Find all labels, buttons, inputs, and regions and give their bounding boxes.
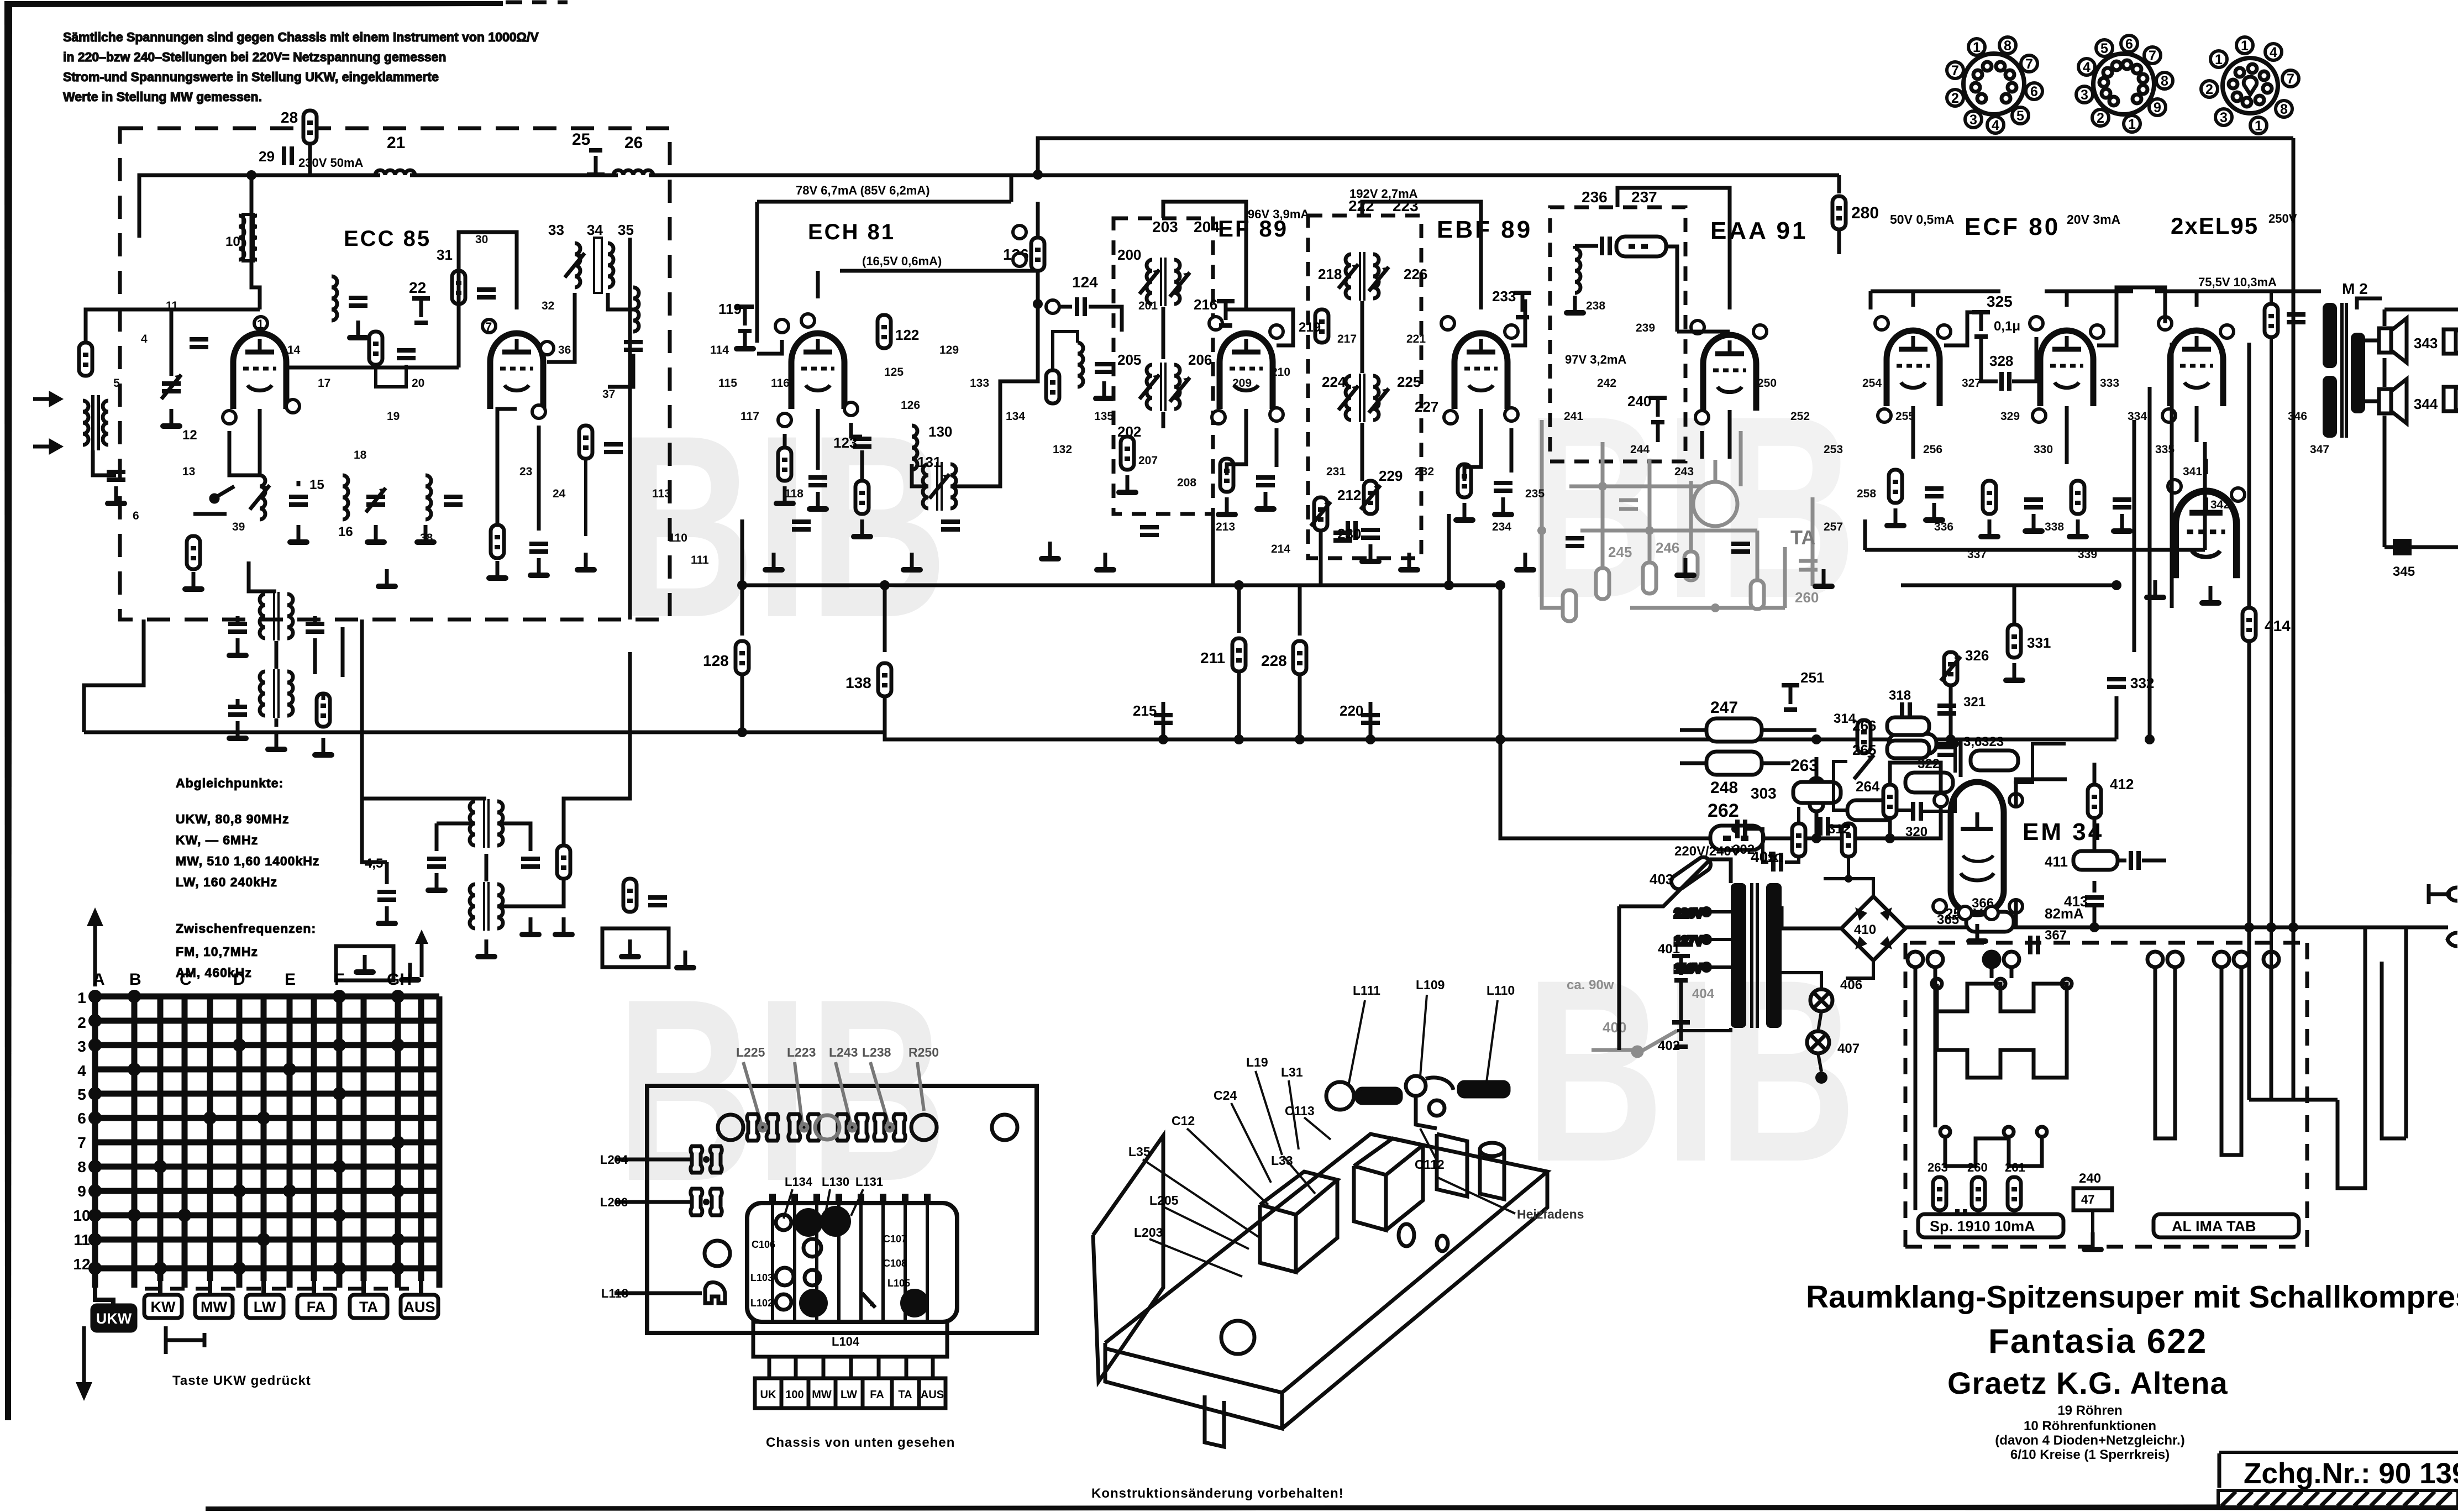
- svg-text:7: 7: [2025, 56, 2033, 72]
- svg-text:235: 235: [1525, 487, 1545, 500]
- svg-text:253: 253: [1824, 443, 1843, 456]
- switch meander lower: [1940, 1127, 2047, 1166]
- svg-text:236: 236: [1582, 188, 1608, 206]
- svg-text:312: 312: [1828, 822, 1850, 837]
- svg-text:5: 5: [113, 377, 120, 390]
- svg-text:TA: TA: [898, 1389, 912, 1401]
- svg-text:131: 131: [917, 454, 941, 470]
- svg-text:Raumklang-Spitzensuper mit Sch: Raumklang-Spitzensuper mit Schallkompres…: [1806, 1279, 2458, 1315]
- svg-text:L111: L111: [1353, 983, 1380, 998]
- svg-text:7: 7: [2287, 71, 2294, 87]
- svg-text:AUS: AUS: [921, 1389, 944, 1401]
- svg-text:L130: L130: [822, 1175, 849, 1189]
- svg-text:330: 330: [2034, 443, 2053, 456]
- svg-text:Taste UKW gedrückt: Taste UKW gedrückt: [172, 1373, 311, 1388]
- svg-text:263: 263: [1927, 1161, 1948, 1174]
- svg-text:100: 100: [785, 1389, 803, 1401]
- tube EBF89: [1441, 317, 1518, 424]
- svg-text:7: 7: [2149, 48, 2156, 64]
- wires ECF/EL: [1913, 287, 2206, 474]
- wire bus C (AVC line): [742, 553, 1500, 585]
- svg-text:LW, 160 240kHz: LW, 160 240kHz: [176, 875, 277, 889]
- svg-text:22: 22: [409, 279, 426, 296]
- svg-text:215: 215: [1133, 702, 1157, 719]
- svg-text:6: 6: [77, 1110, 86, 1127]
- svg-text:207: 207: [1138, 454, 1158, 467]
- svg-text:220: 220: [1340, 702, 1363, 719]
- svg-text:AUS: AUS: [403, 1299, 435, 1315]
- svg-text:L131: L131: [855, 1175, 883, 1189]
- left column symbols: [691, 1146, 730, 1303]
- svg-text:334: 334: [2128, 410, 2147, 423]
- svg-text:325: 325: [1987, 293, 2013, 310]
- svg-text:346: 346: [2288, 410, 2307, 423]
- svg-text:17: 17: [318, 377, 330, 390]
- svg-text:260: 260: [1967, 1161, 1988, 1174]
- svg-text:24: 24: [553, 487, 566, 500]
- svg-text:20: 20: [412, 377, 424, 390]
- svg-text:M 2: M 2: [2342, 280, 2368, 297]
- wire from bus C left end up: [740, 519, 744, 553]
- svg-text:26: 26: [624, 134, 643, 152]
- svg-text:8: 8: [77, 1158, 86, 1175]
- svg-text:Sp. 1910 10mA: Sp. 1910 10mA: [1930, 1218, 2035, 1235]
- svg-text:(16,5V 0,6mA): (16,5V 0,6mA): [862, 254, 942, 268]
- svg-text:9: 9: [77, 1183, 86, 1200]
- svg-text:L205: L205: [1149, 1193, 1179, 1208]
- svg-text:ECH 81: ECH 81: [808, 220, 895, 244]
- svg-text:5: 5: [2100, 41, 2108, 56]
- svg-text:R250: R250: [908, 1045, 939, 1059]
- svg-text:16: 16: [338, 524, 353, 539]
- IF transformer upper: [1139, 258, 1190, 306]
- svg-text:232: 232: [1415, 465, 1434, 478]
- svg-text:244: 244: [1630, 443, 1650, 456]
- svg-text:C12: C12: [1172, 1114, 1195, 1128]
- svg-text:339: 339: [2078, 548, 2097, 561]
- antenna input arrows left: [33, 394, 60, 452]
- svg-text:231: 231: [1326, 465, 1346, 478]
- svg-text:L223: L223: [787, 1045, 816, 1059]
- cap 119 left of tube: [718, 301, 756, 351]
- svg-text:110V: 110V: [1674, 962, 1702, 975]
- svg-text:345: 345: [2393, 564, 2415, 579]
- svg-text:L109: L109: [1416, 978, 1445, 992]
- tuner small labels inside: [750, 1233, 910, 1309]
- volume pot 326: [1941, 647, 1989, 739]
- svg-text:303: 303: [1751, 785, 1777, 802]
- svg-text:126: 126: [901, 399, 920, 412]
- svg-text:FA: FA: [870, 1389, 884, 1401]
- svg-text:401: 401: [1658, 942, 1680, 957]
- svg-text:Werte in Stellung MW gemessen.: Werte in Stellung MW gemessen.: [63, 90, 262, 104]
- svg-text:412: 412: [2110, 776, 2134, 792]
- svg-text:2: 2: [2097, 111, 2104, 126]
- triode ECC85 b: [482, 319, 554, 418]
- resistor 228 riser: [1261, 585, 1306, 739]
- svg-text:Sämtliche Spannungen sind gege: Sämtliche Spannungen sind gegen Chassis …: [63, 30, 539, 44]
- svg-text:327: 327: [1962, 377, 1981, 390]
- svg-text:262: 262: [1708, 800, 1739, 821]
- input tuned circuit components: [79, 343, 127, 506]
- svg-text:122: 122: [895, 327, 919, 343]
- wire bus D (ground return): [84, 732, 2116, 739]
- small box lower: [336, 946, 421, 983]
- svg-text:47: 47: [2081, 1193, 2094, 1206]
- speaker right edge 2: [2444, 377, 2458, 421]
- wire 75,5V top: [2155, 290, 2321, 293]
- wire runs mid-right: [1865, 343, 2205, 777]
- bottom terminal boxes: [755, 1378, 946, 1408]
- svg-text:EAA 91: EAA 91: [1710, 217, 1808, 244]
- svg-text:35: 35: [618, 222, 634, 238]
- svg-text:6/10 Kreise (1 Sperrkreis): 6/10 Kreise (1 Sperrkreis): [2010, 1447, 2170, 1462]
- column letters: [93, 970, 412, 989]
- svg-text:338: 338: [2045, 521, 2064, 533]
- svg-text:28: 28: [281, 109, 298, 126]
- svg-text:31: 31: [437, 246, 453, 263]
- cap 216: [1194, 296, 1235, 326]
- AM IF transformer cluster below box: [227, 592, 334, 758]
- svg-text:C113: C113: [1285, 1104, 1315, 1118]
- dial knob circles: [1221, 1321, 1254, 1354]
- resistor 280 at right end of bus B: [1832, 175, 1879, 254]
- svg-text:258: 258: [1857, 487, 1876, 500]
- tube ECH81: [775, 314, 858, 427]
- svg-text:328: 328: [1989, 353, 2013, 369]
- svg-text:250: 250: [1757, 377, 1777, 390]
- svg-text:205: 205: [1117, 351, 1141, 368]
- cap 215 on bus D: [1133, 702, 1173, 739]
- svg-text:219: 219: [1299, 320, 1321, 335]
- coil 10 antenna transformer: [225, 214, 257, 261]
- stub teeth: [769, 1357, 933, 1378]
- wire bus B (anode rail) with chokes: [251, 174, 1839, 177]
- choke 26: [613, 134, 653, 175]
- svg-text:MW, 510 1,60 1400kHz: MW, 510 1,60 1400kHz: [176, 854, 319, 868]
- svg-text:4: 4: [2270, 45, 2277, 60]
- wire top ECF: [1911, 291, 1915, 307]
- svg-text:242: 242: [1597, 377, 1616, 390]
- tuner labels above: [785, 1175, 883, 1189]
- svg-text:331: 331: [2027, 634, 2051, 651]
- choke 21: [298, 134, 415, 175]
- band buttons: [92, 1295, 438, 1331]
- svg-text:C24: C24: [1214, 1088, 1237, 1102]
- svg-text:210: 210: [1271, 366, 1290, 379]
- svg-text:C108: C108: [883, 1258, 907, 1269]
- svg-text:23: 23: [519, 465, 532, 478]
- svg-text:1: 1: [77, 989, 86, 1006]
- headphone jacks right edge: [2429, 884, 2457, 946]
- svg-text:ECF 80: ECF 80: [1965, 213, 2060, 240]
- svg-text:MW: MW: [201, 1299, 227, 1315]
- small front bracket: [1205, 1395, 1224, 1447]
- svg-text:342: 342: [2210, 498, 2230, 511]
- chassis plate outline: [647, 1086, 1037, 1333]
- EF/ECH mid cluster extra: [1046, 332, 1115, 403]
- FM switch contact row: [193, 486, 234, 514]
- svg-text:226: 226: [1404, 266, 1427, 282]
- svg-text:367: 367: [2045, 928, 2067, 943]
- lower small cluster 365/366: [1937, 896, 2067, 954]
- svg-text:1: 1: [1973, 40, 1981, 55]
- tube socket diagram 2 (noval): [2076, 35, 2173, 132]
- lower network 303-307: [1731, 782, 1879, 883]
- svg-text:L225: L225: [736, 1045, 765, 1059]
- label box right: AL IMA TAB: [2154, 1214, 2299, 1237]
- svg-text:265: 265: [1852, 742, 1876, 758]
- wires EF89: [1163, 202, 1293, 585]
- svg-text:410: 410: [1854, 922, 1876, 937]
- svg-text:MW: MW: [812, 1389, 832, 1401]
- svg-text:96V 3,9mA: 96V 3,9mA: [1248, 207, 1309, 221]
- wires ECH section: [757, 304, 1038, 486]
- hatched bar bottom right: [2218, 1490, 2458, 1507]
- 240 / 47 small box: [2073, 1171, 2112, 1252]
- Abgleichpunkte text block: [176, 776, 319, 980]
- svg-text:6: 6: [2030, 84, 2038, 99]
- svg-text:36: 36: [558, 344, 571, 356]
- svg-text:3: 3: [2220, 110, 2228, 125]
- arrow down symbol: [76, 1326, 92, 1401]
- svg-text:237: 237: [1631, 188, 1657, 206]
- svg-text:343: 343: [2414, 335, 2438, 351]
- tube ECF80 pentode: [2030, 317, 2104, 422]
- svg-text:10 Röhrenfunktionen: 10 Röhrenfunktionen: [2024, 1419, 2156, 1434]
- wire riser tube1 to bus B: [251, 175, 260, 309]
- grid lines: [93, 996, 439, 1288]
- tube socket diagram 3 (octal with key): [2201, 37, 2299, 134]
- rectifier bridge 410: [1782, 879, 1905, 978]
- svg-text:134: 134: [1006, 410, 1025, 423]
- svg-text:LW: LW: [254, 1299, 276, 1315]
- svg-text:4: 4: [2083, 60, 2091, 75]
- svg-text:LW: LW: [841, 1389, 857, 1401]
- svg-text:135: 135: [1094, 410, 1114, 423]
- pins above tuner: [769, 1194, 931, 1203]
- svg-text:115: 115: [718, 377, 737, 390]
- label box left: Sp 1910: [1918, 1214, 2063, 1237]
- svg-text:97V 3,2mA: 97V 3,2mA: [1565, 353, 1626, 366]
- svg-text:8: 8: [2161, 73, 2168, 89]
- mains switch 400: [1592, 1031, 1677, 1056]
- svg-text:113: 113: [652, 487, 671, 500]
- mains transformer 405: [1674, 844, 1782, 1028]
- svg-text:257: 257: [1824, 521, 1843, 533]
- svg-text:234: 234: [1492, 521, 1511, 533]
- svg-text:251: 251: [1800, 669, 1824, 686]
- svg-text:132: 132: [1053, 443, 1072, 456]
- dipole symbol mid-left: [166, 1326, 204, 1354]
- svg-text:204: 204: [1194, 218, 1220, 235]
- svg-text:201: 201: [1138, 300, 1158, 312]
- pins A1 A2 right of tube: [1013, 225, 1026, 266]
- svg-text:217: 217: [1337, 333, 1357, 345]
- svg-text:318: 318: [1889, 688, 1911, 703]
- svg-text:C: C: [180, 970, 192, 989]
- Zchg Nr box: [2219, 1452, 2458, 1490]
- tube EAA91: [1691, 321, 1767, 424]
- svg-text:19: 19: [387, 410, 400, 423]
- svg-text:Konstruktionsänderung vorbeha: Konstruktionsänderung vorbehalten!: [1091, 1486, 1344, 1501]
- svg-text:ca. 90w: ca. 90w: [1567, 978, 1614, 993]
- variable cap 11 with arrow: [160, 375, 182, 429]
- svg-text:252: 252: [1790, 410, 1810, 423]
- svg-text:UKW: UKW: [96, 1310, 132, 1327]
- svg-text:38: 38: [420, 532, 433, 544]
- svg-text:247: 247: [1710, 699, 1738, 717]
- triode ECC85 a: [223, 317, 300, 424]
- svg-text:L19: L19: [1246, 1055, 1268, 1069]
- svg-text:119: 119: [718, 301, 742, 317]
- black network 247/248 near bus D: [1680, 699, 1816, 797]
- svg-text:Graetz K.G. Altena: Graetz K.G. Altena: [1947, 1366, 2228, 1400]
- svg-text:124: 124: [1072, 274, 1098, 291]
- resistor 345b + cap: [2265, 291, 2305, 1100]
- inner tuner block rounded: [747, 1203, 957, 1322]
- anode frame wire ECH81: [755, 202, 759, 343]
- svg-text:75,5V 10,3mA: 75,5V 10,3mA: [2198, 275, 2277, 289]
- svg-text:TA: TA: [1790, 526, 1815, 549]
- svg-text:400: 400: [1603, 1019, 1626, 1036]
- svg-text:L103: L103: [750, 1272, 773, 1283]
- svg-text:329: 329: [2000, 410, 2020, 423]
- grounds/caps under ECF80: [1884, 470, 2133, 539]
- res 202: [1116, 437, 1138, 495]
- svg-text:260: 260: [1795, 589, 1819, 606]
- svg-text:0,1μ: 0,1μ: [1994, 319, 2020, 334]
- svg-text:347: 347: [2310, 443, 2329, 456]
- svg-text:ECC 85: ECC 85: [344, 227, 431, 251]
- svg-text:333: 333: [2100, 377, 2119, 390]
- svg-text:L110: L110: [1487, 983, 1515, 998]
- svg-text:1: 1: [2128, 117, 2136, 132]
- svg-text:239: 239: [1636, 322, 1655, 334]
- wire bus F 255V: [1903, 926, 2448, 930]
- svg-text:406: 406: [1840, 978, 1862, 993]
- svg-text:256: 256: [1923, 443, 1942, 456]
- svg-text:263: 263: [1790, 757, 1818, 775]
- svg-text:264: 264: [1856, 778, 1880, 795]
- svg-text:6: 6: [2125, 36, 2133, 52]
- arrow up symbol: [87, 907, 103, 986]
- svg-text:KW: KW: [151, 1299, 176, 1315]
- svg-text:L104: L104: [832, 1335, 860, 1348]
- dial lamp wire exits bottom left of box: [84, 620, 144, 732]
- tube EL95 #1: [2158, 317, 2234, 422]
- svg-text:4: 4: [1992, 118, 1999, 133]
- svg-text:AL IMA TAB: AL IMA TAB: [2172, 1218, 2256, 1235]
- svg-text:BIB: BIB: [616, 945, 948, 1235]
- svg-text:L204: L204: [600, 1153, 628, 1167]
- svg-text:280: 280: [1851, 204, 1879, 222]
- svg-text:2: 2: [77, 1014, 86, 1031]
- output transformer M2: [2323, 280, 2368, 438]
- svg-text:GH: GH: [387, 970, 412, 989]
- svg-text:216: 216: [1194, 296, 1217, 313]
- caps 401 402: [1658, 942, 1690, 1053]
- svg-text:13: 13: [182, 465, 195, 478]
- svg-text:243: 243: [1674, 465, 1694, 478]
- 265 / small parts above EM: [1852, 741, 1929, 758]
- svg-text:116: 116: [771, 377, 790, 390]
- svg-text:L134: L134: [785, 1175, 813, 1189]
- cap 331 mid: [2003, 585, 2051, 683]
- svg-text:229: 229: [1379, 468, 1403, 484]
- svg-text:39: 39: [232, 521, 245, 533]
- svg-text:133: 133: [970, 377, 989, 390]
- svg-text:10: 10: [225, 234, 240, 249]
- svg-text:208: 208: [1177, 476, 1196, 489]
- grid junction dots: [88, 990, 405, 1275]
- svg-text:1: 1: [2255, 118, 2262, 134]
- cap 251: [1782, 669, 1824, 710]
- crossover blob 345: [2385, 539, 2415, 579]
- svg-text:2: 2: [1951, 91, 1959, 106]
- lamps 406 407: [1782, 973, 1862, 1084]
- svg-text:B: B: [129, 970, 141, 989]
- svg-text:3: 3: [1969, 112, 1977, 128]
- svg-text:L206: L206: [600, 1195, 628, 1209]
- IF transformer lower: [1139, 363, 1190, 411]
- cap 25: [572, 130, 605, 175]
- svg-text:KW, — 6MHz: KW, — 6MHz: [176, 833, 258, 847]
- svg-text:110: 110: [669, 532, 687, 544]
- svg-text:Heizfadens: Heizfadens: [1517, 1207, 1584, 1221]
- resistor 264 left of EM34: [1856, 763, 1941, 838]
- svg-text:200: 200: [1117, 246, 1141, 263]
- grid bottom stubs + dashed bus: [95, 1281, 421, 1305]
- svg-text:129: 129: [939, 344, 959, 356]
- speaker wires: [2357, 298, 2458, 547]
- svg-text:in 220–bzw 240–Stellungen bei: in 220–bzw 240–Stellungen bei 220V= Netz…: [63, 50, 446, 64]
- cap 220 on bus D: [1340, 702, 1380, 739]
- svg-text:L35: L35: [1128, 1144, 1151, 1159]
- svg-text:2: 2: [2205, 82, 2213, 97]
- svg-text:18: 18: [354, 449, 367, 461]
- svg-text:1: 1: [257, 317, 264, 331]
- svg-text:12: 12: [73, 1256, 90, 1273]
- svg-text:240: 240: [2079, 1171, 2101, 1186]
- pot 229/230 cluster bottom: [1337, 468, 1403, 564]
- svg-text:341: 341: [2183, 465, 2202, 478]
- long verticals with U-turns right area: [1915, 928, 2406, 1210]
- svg-text:Abgleichpunkte:: Abgleichpunkte:: [176, 776, 283, 790]
- left leader wires to edge: [614, 1159, 702, 1293]
- pot 212: [1311, 487, 1361, 585]
- 3D labels + leaders: [1128, 978, 1584, 1240]
- svg-text:9: 9: [2154, 100, 2161, 116]
- oscillator tuned circuit bottom: [250, 475, 387, 545]
- resistor 211 on riser to bus D: [1200, 580, 1246, 744]
- svg-text:246: 246: [1656, 539, 1679, 556]
- mid riser with resistor 138: [845, 585, 891, 739]
- switch meander upper: [1932, 979, 2072, 1078]
- svg-text:221: 221: [1406, 333, 1426, 345]
- svg-text:233: 233: [1492, 288, 1516, 305]
- svg-text:Strom-und Spannungswerte in St: Strom-und Spannungswerte in Stellung UKW…: [63, 70, 439, 84]
- svg-text:UK: UK: [760, 1389, 776, 1401]
- resistor 30 above box: [281, 109, 317, 175]
- svg-text:4: 4: [77, 1062, 86, 1079]
- svg-text:241: 241: [1564, 410, 1583, 423]
- tuner interior circles: [776, 1215, 791, 1230]
- svg-text:402: 402: [1658, 1038, 1680, 1053]
- svg-text:L203: L203: [1134, 1225, 1163, 1240]
- speaker 344: [2379, 379, 2438, 423]
- resistor 219 left: [1299, 309, 1328, 343]
